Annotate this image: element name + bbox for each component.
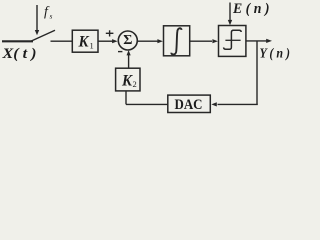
svg-text:Σ: Σ xyxy=(123,33,132,48)
svg-text:DAC: DAC xyxy=(175,97,203,113)
svg-text:X( t ): X( t ) xyxy=(1,46,36,62)
svg-text:K: K xyxy=(78,34,90,51)
svg-text:2: 2 xyxy=(133,79,137,89)
svg-text:s: s xyxy=(50,12,53,21)
svg-text:E ( n ): E ( n ) xyxy=(232,1,269,17)
svg-text:1: 1 xyxy=(90,40,94,50)
svg-text:K: K xyxy=(121,72,133,89)
svg-text:Y ( n ): Y ( n ) xyxy=(260,46,291,61)
